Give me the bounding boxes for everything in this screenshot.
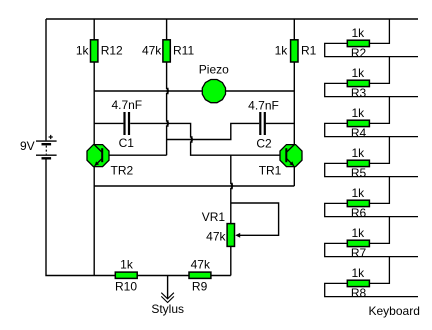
wire R11 branch with hops (167, 19, 168, 155)
svg-text:1k: 1k (351, 106, 365, 120)
wire TR2 base to R11 (102, 154, 166, 156)
wire VR1 wiper loop (231, 203, 279, 235)
wire R5 leads and tap (325, 137, 418, 177)
resistor R5 1k (347, 160, 369, 166)
wire emitter row (94, 185, 294, 187)
svg-text:TR1: TR1 (259, 164, 282, 178)
wire R8 leads and tap (325, 257, 418, 297)
svg-text:R4: R4 (351, 126, 367, 140)
wire VR1 top from TR1 base with hop over emitter row (231, 155, 232, 223)
wire left vertical to battery + (45, 19, 47, 140)
svg-text:R2: R2 (351, 46, 367, 60)
svg-text:1k: 1k (275, 44, 289, 58)
wire TR1 emitter down (293, 167, 295, 187)
resistor R1 1k (291, 40, 298, 62)
svg-text:1k: 1k (351, 66, 365, 80)
wire piezo left (94, 90, 202, 92)
stylus probe arrow (161, 293, 174, 303)
resistor R7 1k (347, 240, 369, 246)
wire bottom rail R10 to R9 (137, 275, 189, 277)
svg-text:4.7nF: 4.7nF (111, 98, 142, 112)
wire R6 leads and tap (325, 177, 418, 217)
wire C2 left to TR2 base net (167, 123, 260, 139)
wire R2 leads and tap (325, 19, 418, 57)
wire VR1 bottom (230, 246, 232, 275)
svg-text:4.7nF: 4.7nF (248, 99, 279, 113)
svg-text:C1: C1 (119, 136, 135, 150)
svg-text:R1: R1 (301, 44, 317, 58)
svg-text:1k: 1k (351, 266, 365, 280)
svg-text:47k: 47k (206, 230, 226, 244)
svg-text:1k: 1k (120, 258, 134, 272)
svg-text:1k: 1k (351, 186, 365, 200)
resistor R12 1k (91, 40, 98, 62)
wire R12 branch TR2 collector (93, 19, 95, 145)
svg-text:1k: 1k (76, 44, 90, 58)
wire piezo right (226, 90, 295, 92)
capacitor C2 4.7nF (260, 112, 265, 135)
piezo transducer (202, 80, 225, 103)
svg-text:Stylus: Stylus (151, 302, 184, 316)
resistor R11 47k (163, 40, 170, 62)
wire bottom rail R9 to VR1 (211, 275, 231, 277)
wire C2 right (266, 122, 295, 124)
svg-text:R11: R11 (173, 44, 194, 58)
wire R4 leads and tap (325, 97, 418, 137)
resistor R9 47k (189, 272, 211, 278)
wire TR2 emitter down (93, 167, 95, 276)
wire C1 right to TR1 base with hop (130, 123, 286, 155)
hop blob VR1 wire over emitter row (231, 184, 233, 188)
svg-text:VR1: VR1 (202, 210, 226, 224)
svg-text:R7: R7 (351, 246, 367, 260)
transistor TR1 (280, 145, 302, 167)
svg-text:1k: 1k (351, 26, 365, 40)
battery B1 9V (36, 135, 57, 158)
svg-text:47k: 47k (191, 258, 211, 272)
svg-text:Piezo: Piezo (199, 63, 229, 77)
potentiometer VR1 47k (227, 224, 234, 247)
svg-text:1k: 1k (351, 146, 365, 160)
transistor TR2 (87, 145, 109, 167)
svg-text:C2: C2 (256, 137, 272, 151)
svg-text:R6: R6 (351, 206, 367, 220)
wire top supply rail (46, 18, 418, 20)
resistor R8 1k (347, 280, 369, 286)
svg-text:R5: R5 (351, 166, 367, 180)
hop blob R11 over C1 wire (167, 121, 169, 125)
resistor R4 1k (347, 120, 369, 126)
resistor R3 1k (347, 80, 369, 86)
wire stylus drop (167, 276, 169, 300)
resistor R6 1k (347, 200, 369, 206)
svg-text:R8: R8 (351, 286, 367, 300)
wire R7 leads and tap (325, 217, 418, 257)
wire R1 branch TR1 collector (293, 19, 295, 145)
svg-text:9V: 9V (20, 139, 35, 153)
wire C1 left (94, 122, 123, 124)
capacitor C1 4.7nF (125, 112, 130, 135)
svg-text:R9: R9 (192, 279, 208, 293)
wire R3 leads and tap (325, 57, 418, 97)
svg-text:R3: R3 (351, 86, 367, 100)
wire battery - to bottom rail (46, 159, 115, 275)
svg-text:Keyboard: Keyboard (369, 304, 420, 318)
svg-text:R10: R10 (115, 279, 137, 293)
svg-text:47k: 47k (142, 44, 162, 58)
hop blob R11 over piezo wire (167, 89, 169, 93)
resistor R10 1k (115, 272, 137, 278)
svg-text:TR2: TR2 (111, 164, 134, 178)
svg-text:R12: R12 (101, 44, 123, 58)
hop blob TR1 base wire over C2 wire (191, 138, 193, 142)
VR1 wiper arrow (235, 233, 240, 238)
resistor R2 1k (347, 40, 369, 46)
svg-text:1k: 1k (351, 226, 365, 240)
